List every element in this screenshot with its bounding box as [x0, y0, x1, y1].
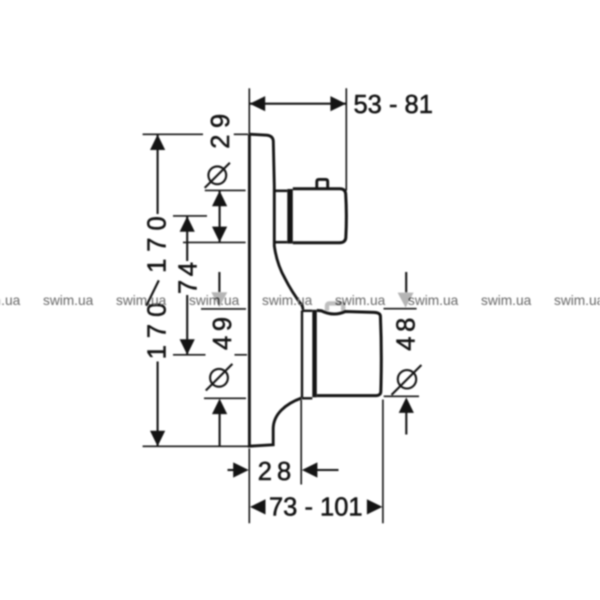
- svg-text:28: 28: [258, 458, 296, 486]
- svg-text:74: 74: [175, 258, 203, 294]
- svg-text:swim.ua: swim.ua: [481, 293, 532, 308]
- svg-text:73 - 101: 73 - 101: [269, 493, 363, 521]
- svg-text:swim.ua: swim.ua: [554, 293, 600, 308]
- svg-text:48: 48: [393, 313, 421, 351]
- svg-text:swim.ua: swim.ua: [116, 293, 167, 308]
- svg-text:swim.ua: swim.ua: [408, 293, 459, 308]
- svg-text:swim.ua: swim.ua: [43, 293, 94, 308]
- svg-text:53 - 81: 53 - 81: [354, 91, 433, 119]
- svg-text:swim.ua: swim.ua: [189, 293, 240, 308]
- svg-text:29: 29: [207, 107, 235, 149]
- svg-text:swim.ua: swim.ua: [262, 293, 313, 308]
- svg-text:49: 49: [209, 312, 237, 350]
- svg-text:170: 170: [144, 209, 172, 273]
- svg-text:swim.ua: swim.ua: [335, 293, 386, 308]
- svg-text:swim.ua: swim.ua: [0, 293, 21, 308]
